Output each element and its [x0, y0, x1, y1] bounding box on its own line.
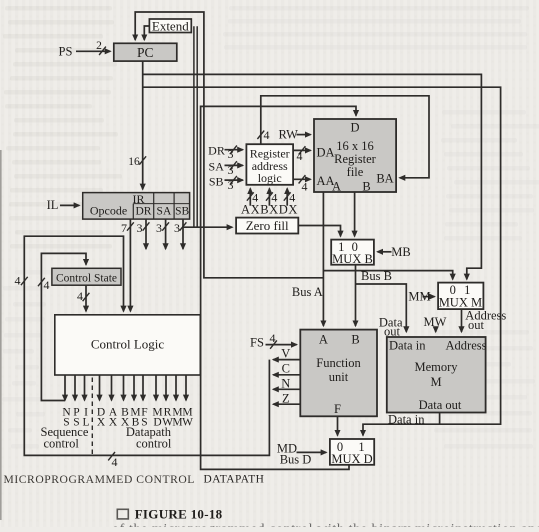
- svg-text:file: file: [347, 165, 364, 179]
- svg-text:DA: DA: [316, 146, 334, 160]
- svg-text:X: X: [97, 417, 106, 429]
- svg-text:DATAPATH: DATAPATH: [204, 474, 265, 486]
- svg-text:MB: MB: [391, 245, 410, 259]
- svg-text:4: 4: [44, 278, 50, 292]
- svg-text:B: B: [351, 333, 359, 347]
- svg-text:PS: PS: [59, 45, 73, 59]
- svg-text:IR: IR: [133, 192, 145, 206]
- svg-text:3: 3: [137, 221, 143, 235]
- svg-text:BA: BA: [376, 172, 393, 186]
- svg-text:Zero fill: Zero fill: [246, 218, 289, 233]
- svg-text:M: M: [430, 375, 441, 389]
- svg-text:4: 4: [264, 128, 270, 142]
- svg-text:SA: SA: [157, 206, 172, 218]
- svg-text:Z: Z: [282, 392, 290, 406]
- svg-text:MW: MW: [424, 315, 447, 329]
- svg-text:out: out: [468, 318, 485, 332]
- svg-text:IL: IL: [47, 198, 59, 212]
- svg-text:SA: SA: [209, 160, 225, 174]
- svg-text:Register: Register: [334, 152, 376, 166]
- svg-text:Bus D: Bus D: [280, 453, 312, 467]
- svg-text:PC: PC: [137, 45, 154, 60]
- svg-text:control: control: [136, 437, 172, 451]
- svg-text:2: 2: [96, 40, 102, 52]
- svg-text:of the microprogrammed control: of the microprogrammed control with the …: [112, 522, 539, 527]
- svg-text:A: A: [319, 333, 328, 347]
- svg-text:Bus A: Bus A: [292, 285, 323, 299]
- svg-text:3: 3: [174, 221, 180, 235]
- svg-text:X: X: [109, 417, 118, 429]
- svg-text:4: 4: [77, 289, 83, 303]
- svg-text:logic: logic: [258, 171, 282, 185]
- svg-text:Bus B: Bus B: [361, 269, 392, 283]
- svg-text:Memory: Memory: [414, 360, 458, 374]
- svg-text:DR: DR: [208, 144, 225, 158]
- svg-text:W: W: [182, 417, 193, 429]
- svg-text:FIGURE 10-18: FIGURE 10-18: [135, 507, 223, 522]
- svg-text:16: 16: [128, 156, 140, 168]
- svg-text:MICROPROGRAMMED CONTROL: MICROPROGRAMMED CONTROL: [4, 473, 195, 486]
- svg-text:Function: Function: [316, 356, 361, 370]
- svg-text:Opcode: Opcode: [90, 204, 127, 218]
- svg-text:N: N: [281, 377, 290, 391]
- svg-text:3: 3: [228, 178, 234, 192]
- svg-text:F: F: [334, 402, 341, 416]
- svg-text:Data in: Data in: [388, 413, 425, 427]
- svg-text:Extend: Extend: [152, 19, 189, 34]
- svg-text:4: 4: [297, 149, 303, 163]
- svg-text:3: 3: [228, 163, 234, 177]
- svg-text:RW: RW: [278, 128, 298, 142]
- svg-text:DR: DR: [136, 206, 152, 218]
- svg-text:A: A: [332, 180, 341, 194]
- svg-text:Data out: Data out: [419, 398, 462, 412]
- svg-text:B: B: [362, 180, 370, 194]
- svg-text:MUX B: MUX B: [332, 252, 373, 266]
- svg-text:7: 7: [121, 221, 127, 235]
- svg-text:out: out: [384, 325, 401, 339]
- svg-text:Control Logic: Control Logic: [91, 337, 165, 352]
- svg-text:unit: unit: [329, 370, 349, 384]
- svg-text:4: 4: [270, 331, 276, 345]
- svg-text:MUX M: MUX M: [439, 295, 482, 309]
- svg-text:Data in: Data in: [389, 339, 426, 353]
- svg-text:AXBXDX: AXBXDX: [241, 203, 298, 217]
- svg-text:4: 4: [15, 274, 21, 288]
- svg-text:SB: SB: [175, 206, 189, 218]
- svg-text:16 x 16: 16 x 16: [336, 139, 374, 153]
- svg-text:MUX D: MUX D: [331, 452, 372, 466]
- svg-text:C: C: [282, 362, 290, 376]
- svg-text:Control State: Control State: [56, 272, 117, 284]
- svg-text:V: V: [281, 347, 290, 361]
- svg-text:4: 4: [302, 180, 308, 194]
- svg-text:3: 3: [156, 221, 162, 235]
- svg-text:SB: SB: [209, 175, 224, 189]
- svg-text:4: 4: [112, 455, 118, 469]
- svg-text:control: control: [44, 437, 80, 451]
- svg-text:FS: FS: [250, 336, 264, 350]
- svg-text:Address: Address: [446, 339, 487, 353]
- svg-text:3: 3: [228, 147, 234, 161]
- svg-text:MM: MM: [408, 290, 430, 304]
- svg-text:D: D: [350, 121, 359, 135]
